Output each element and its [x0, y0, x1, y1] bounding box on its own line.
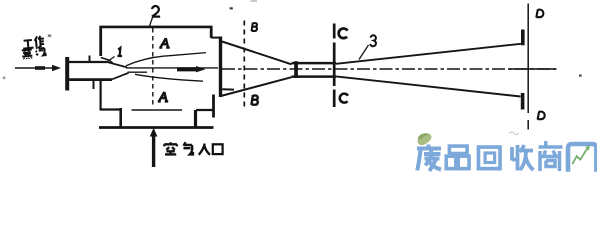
char 汽 [35, 46, 45, 56]
logo chart line [572, 145, 590, 164]
faint smudge above watermark [509, 132, 519, 135]
char 入 [199, 144, 210, 155]
air inlet label (空气入口) [164, 142, 222, 155]
steam inlet arrow [15, 65, 61, 71]
throat entrance bar [294, 61, 298, 78]
working steam label (工作蒸汽) [21, 36, 46, 60]
label C bottom [340, 94, 348, 103]
char 工 [23, 40, 34, 49]
watermark char 回 [478, 147, 500, 169]
section line B-B [243, 21, 245, 108]
jet boundary upper [126, 53, 206, 66]
leader for 1 [108, 57, 115, 62]
label 2 [152, 6, 160, 17]
scan speckles [3, 0, 582, 79]
char 作 [34, 36, 44, 48]
watermark char 废 [417, 145, 441, 172]
leader for 3 [359, 45, 369, 60]
label C top [339, 28, 348, 38]
nozzle inlet flange [65, 57, 69, 91]
diffuser 3 walls [336, 44, 521, 97]
label B bottom [251, 95, 257, 105]
section line C-C [333, 24, 336, 108]
diffuser exit flange top [521, 30, 525, 46]
nozzle gland ticks on chamber wall [90, 56, 94, 90]
char 气 [184, 142, 193, 154]
label 1 [117, 48, 122, 56]
centerline axis [222, 68, 557, 70]
label B top [252, 23, 257, 32]
label 3 [370, 35, 376, 46]
converging cone entrance flange [219, 37, 222, 98]
watermark logo box 网 [568, 144, 596, 172]
section line A-A [152, 28, 154, 107]
label A bottom [158, 92, 168, 102]
air inlet arrow [150, 128, 158, 167]
leaf on 废 [418, 133, 432, 145]
char 蒸 [22, 48, 33, 59]
leader for 2 [150, 18, 153, 27]
watermark char 品 [446, 146, 469, 169]
label D top [536, 9, 543, 17]
air inlet box below chamber [99, 108, 214, 128]
watermark 废品回收商网 logo [417, 133, 596, 172]
watermark char 商 [539, 141, 563, 171]
centerline solid cross at D [509, 68, 556, 70]
axial flow arrow [177, 66, 206, 72]
label D bottom [538, 111, 545, 119]
watermark char 收 [512, 145, 534, 171]
nozzle 1 pipe [69, 62, 218, 80]
section line D-D [527, 4, 529, 130]
throat tube walls [292, 63, 337, 77]
char 口 [213, 144, 223, 154]
converging cone walls [221, 42, 292, 97]
diffuser exit flange bottom [521, 93, 525, 110]
jet boundary lower [135, 74, 203, 81]
char 空 [164, 142, 177, 154]
mixing chamber 2 shell [100, 26, 221, 118]
label A top [159, 38, 169, 48]
